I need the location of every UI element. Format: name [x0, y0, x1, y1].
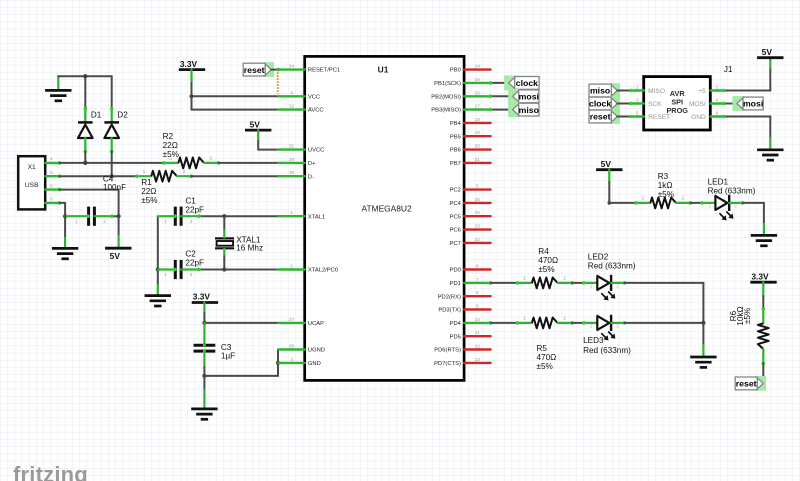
- capacitor C4: [65, 207, 119, 226]
- svg-text:2: 2: [183, 169, 186, 175]
- svg-text:1: 1: [636, 84, 639, 90]
- resistor R5: [516, 316, 574, 329]
- svg-text:19: 19: [475, 130, 481, 136]
- wire clock flag to J1: [617, 102, 632, 106]
- svg-text:5V: 5V: [250, 119, 261, 129]
- U1 right pin 23 PC6: [450, 224, 491, 234]
- junction C4 right node: [117, 214, 121, 218]
- junction UCAP node: [202, 321, 206, 325]
- svg-text:R4: R4: [538, 247, 549, 256]
- U1 right pin 6 PD0: [450, 264, 491, 274]
- wire J1 GND to ground: [722, 115, 771, 150]
- LED LED3: [582, 315, 626, 340]
- ground GND6 (under LED1): [751, 235, 777, 245]
- power 5V (J1): [757, 47, 783, 58]
- svg-text:VCC: VCC: [308, 94, 320, 100]
- wire C2 node to U1 XTAL2/PC0: [224, 269, 278, 271]
- U1 left pin 30 D-: [278, 170, 314, 180]
- svg-text:28: 28: [289, 344, 295, 350]
- svg-text:PC7: PC7: [450, 241, 461, 247]
- U1 left pin 1 XTAL1: [278, 210, 325, 220]
- wire reset flag to U1 RESET/PC1: [271, 68, 280, 72]
- svg-text:8: 8: [476, 290, 479, 296]
- ground GND4 (under C3): [191, 409, 217, 419]
- svg-text:C3: C3: [221, 343, 232, 352]
- net label clock (J1): [589, 96, 620, 111]
- svg-text:5: 5: [50, 183, 53, 189]
- wire R2 to U1 D+: [218, 162, 278, 164]
- wire VCC node to AVCC row: [192, 96, 279, 109]
- svg-text:PB5: PB5: [450, 134, 461, 140]
- svg-text:PD3(TX): PD3(TX): [438, 308, 461, 314]
- resistor R2: [162, 156, 220, 169]
- pin 3 of X1: [45, 170, 61, 178]
- ground GND5 (under J1): [757, 150, 783, 160]
- svg-text:PC2: PC2: [450, 188, 461, 194]
- wire miso flag to J1: [617, 89, 632, 93]
- U1 left pin 32 AVCC: [278, 104, 323, 114]
- svg-text:+5: +5: [698, 88, 706, 95]
- wire U1 PD4 to R5: [489, 321, 518, 325]
- svg-text:R2: R2: [163, 132, 174, 141]
- wire U1 PB3 to miso flag: [489, 108, 513, 112]
- U1 right pin 20 PB6: [450, 144, 491, 154]
- svg-text:PB1(SCK): PB1(SCK): [434, 81, 461, 87]
- wire 3.3V to UCAP node: [203, 303, 205, 323]
- svg-text:15: 15: [475, 77, 481, 83]
- ground GND7 (under LEDs): [690, 357, 716, 367]
- LED LED2: [582, 275, 626, 300]
- U1 right pin 7 PD1: [450, 277, 491, 287]
- junction VCC node: [189, 94, 193, 98]
- resistor R1: [135, 169, 193, 182]
- label D1: [91, 111, 102, 120]
- capacitor C1: [158, 207, 225, 226]
- svg-text:1kΩ: 1kΩ: [658, 181, 673, 190]
- U1 left pin 24 RESET/PC1: [278, 64, 340, 74]
- svg-text:PD4: PD4: [450, 321, 462, 327]
- U1 right pin 26 PC4: [450, 197, 491, 207]
- wire X1 pin6 to ground node: [59, 203, 65, 216]
- svg-text:miso: miso: [590, 86, 610, 96]
- svg-text:GND: GND: [691, 114, 706, 121]
- svg-text:R1: R1: [141, 178, 152, 187]
- ground GND1 (top left): [45, 76, 71, 101]
- op-amp U1 ATMEGA8U2 body: [305, 56, 464, 380]
- power 5V (R3): [596, 159, 622, 170]
- svg-text:PB3(MISO): PB3(MISO): [431, 108, 461, 114]
- U1 right pin 25 PC5: [450, 210, 491, 220]
- svg-text:11: 11: [475, 330, 480, 336]
- svg-text:±5%: ±5%: [658, 190, 674, 199]
- wire X1 pin4 to R2: [59, 162, 164, 164]
- svg-text:mosi: mosi: [519, 92, 539, 102]
- svg-text:23: 23: [475, 224, 481, 230]
- svg-text:X1: X1: [28, 164, 36, 171]
- svg-text:1: 1: [523, 276, 526, 282]
- label LED3 value: [583, 336, 631, 355]
- wire X1 pin5 to 5V node: [59, 190, 118, 217]
- wire 3.3V to VCC node: [190, 70, 192, 97]
- wire junction to U1 GND: [277, 362, 279, 364]
- U1 right pin 16 PB2(MOSI): [431, 90, 490, 100]
- svg-text:1: 1: [290, 210, 293, 216]
- ground GND2 (under USB): [52, 248, 78, 258]
- U1 right pin 22 PC7: [450, 237, 491, 247]
- junction XTAL2 node: [222, 267, 226, 271]
- svg-text:6: 6: [716, 110, 719, 116]
- power 5V (UVCC): [245, 119, 271, 130]
- crystal XTAL1: [215, 216, 234, 269]
- svg-text:27: 27: [289, 317, 295, 323]
- net label reset (top): [243, 62, 274, 77]
- wire C4 right to 5V: [118, 216, 120, 248]
- svg-text:20: 20: [475, 144, 481, 150]
- svg-text:3.3V: 3.3V: [180, 59, 198, 69]
- wire VCC node to U1 VCC: [192, 95, 279, 97]
- U1 right pin 15 PB1(SCK): [434, 77, 490, 87]
- wire D1 to node D+: [84, 151, 86, 163]
- junction C3 bottom node: [202, 374, 206, 378]
- svg-text:RESET/PC1: RESET/PC1: [308, 68, 340, 74]
- resistor R3: [634, 196, 692, 209]
- svg-text:LED2: LED2: [588, 253, 609, 262]
- wire C3 node to ground: [203, 376, 205, 409]
- junction LED ground column: [701, 321, 705, 325]
- svg-text:29: 29: [289, 157, 295, 163]
- svg-text:24: 24: [289, 64, 295, 70]
- svg-text:22Ω: 22Ω: [141, 187, 156, 196]
- svg-text:clock: clock: [516, 78, 538, 88]
- capacitor C3: [194, 323, 216, 376]
- svg-text:10: 10: [475, 317, 481, 323]
- svg-text:PD7(CTS): PD7(CTS): [434, 361, 461, 367]
- resistor R6: [758, 307, 769, 365]
- svg-text:5: 5: [476, 184, 479, 190]
- label C3 value: [221, 343, 235, 361]
- junction XTAL1 top node: [222, 214, 226, 218]
- wire LED3 to ground column: [624, 322, 703, 324]
- wire C3 node to U1 UGND/GND: [204, 350, 278, 376]
- svg-text:Red (633nm): Red (633nm): [708, 187, 756, 196]
- wire U1 PB1 to clock flag: [489, 81, 509, 85]
- U1 right pin 5 PC2: [450, 184, 491, 194]
- svg-text:3.3V: 3.3V: [193, 292, 211, 302]
- label R1 value: [141, 178, 157, 205]
- label LED2 value: [588, 253, 636, 271]
- svg-text:LED1: LED1: [708, 178, 729, 187]
- power 3.3V (R6): [750, 271, 776, 282]
- svg-text:2: 2: [563, 276, 566, 282]
- svg-text:XTAL2/PC0: XTAL2/PC0: [308, 268, 338, 274]
- svg-text:3: 3: [290, 357, 293, 363]
- svg-text:PB7: PB7: [450, 161, 461, 167]
- svg-text:±5%: ±5%: [163, 150, 179, 159]
- svg-text:UGND: UGND: [308, 348, 325, 354]
- U1 right pin 18 PB4: [450, 117, 491, 127]
- svg-text:100nF: 100nF: [103, 183, 126, 192]
- U1 right pin 21 PB7: [450, 157, 491, 167]
- label R2 value: [163, 132, 179, 159]
- net label clock (PB1): [504, 76, 539, 91]
- svg-text:UVCC: UVCC: [308, 148, 324, 154]
- junction GND row node: [276, 361, 280, 365]
- svg-text:17: 17: [475, 104, 481, 110]
- U1 right pin 10 PD4: [450, 317, 491, 327]
- svg-text:31: 31: [289, 144, 295, 150]
- wire X1 pin3 to R1: [59, 175, 136, 177]
- svg-text:RESET: RESET: [648, 114, 670, 121]
- wire U1 PD1 to R4: [489, 281, 518, 285]
- svg-text:26: 26: [475, 197, 481, 203]
- wire C1 node to U1 XTAL1: [224, 215, 278, 217]
- svg-text:PD5: PD5: [450, 334, 461, 340]
- svg-text:21: 21: [475, 157, 481, 163]
- svg-text:LED3: LED3: [583, 336, 604, 345]
- wire LED column to ground: [702, 323, 704, 357]
- U1 left pin 27 UCAP: [278, 317, 324, 327]
- diode D1: [78, 107, 93, 153]
- svg-text:16: 16: [475, 90, 481, 96]
- svg-text:2: 2: [103, 219, 106, 224]
- svg-text:1: 1: [164, 272, 167, 277]
- svg-text:XTAL1: XTAL1: [308, 214, 325, 220]
- junction top bus x D1: [83, 74, 87, 78]
- wire R3 to LED1: [690, 202, 702, 204]
- svg-text:reset: reset: [736, 379, 757, 389]
- svg-text:PROG: PROG: [666, 106, 688, 115]
- svg-text:Red (633nm): Red (633nm): [588, 262, 636, 271]
- svg-text:PB0: PB0: [450, 68, 461, 74]
- U1 right pin 8 PD2(RX): [438, 290, 491, 300]
- wire J1 MOSI to mosi flag: [722, 102, 737, 106]
- svg-text:2: 2: [716, 84, 719, 90]
- svg-text:1: 1: [523, 316, 526, 322]
- svg-text:5V: 5V: [110, 251, 121, 261]
- svg-text:4: 4: [50, 157, 53, 163]
- J1 right pin 4 MOSI: [711, 97, 724, 103]
- U1 right pin 11 PD5: [450, 330, 491, 340]
- capacitor C2: [158, 260, 225, 279]
- net label miso (J1): [589, 83, 620, 98]
- wire C1/C2 left column: [157, 216, 159, 269]
- svg-text:C2: C2: [185, 250, 196, 259]
- wire C4 left node to ground: [64, 216, 66, 248]
- svg-text:1: 1: [75, 219, 78, 224]
- svg-text:22: 22: [475, 237, 481, 243]
- svg-text:UCAP: UCAP: [308, 321, 324, 327]
- svg-text:reset: reset: [590, 112, 611, 122]
- svg-text:PC5: PC5: [450, 214, 461, 220]
- svg-text:±5%: ±5%: [538, 265, 554, 274]
- svg-text:1µF: 1µF: [221, 352, 235, 361]
- label C2 value: [185, 250, 204, 268]
- svg-text:5V: 5V: [601, 159, 612, 169]
- net label mosi (J1 right): [732, 96, 763, 111]
- U1 left pin 29 D+: [278, 157, 316, 167]
- svg-text:±5%: ±5%: [743, 308, 752, 324]
- diode D2: [104, 107, 119, 153]
- junction D2 on D- row: [110, 174, 114, 178]
- svg-text:4: 4: [290, 90, 293, 96]
- pin 5 of X1: [45, 183, 61, 191]
- svg-text:ATMEGA8U2: ATMEGA8U2: [362, 203, 412, 213]
- svg-text:miso: miso: [519, 105, 539, 115]
- wire 5V to U1 UVCC: [258, 130, 278, 150]
- wire R1 to U1 D-: [191, 175, 278, 177]
- svg-text:12: 12: [475, 344, 481, 350]
- svg-text:PB4: PB4: [450, 121, 462, 127]
- pin 4 of X1: [45, 157, 61, 165]
- resistor R4: [516, 276, 574, 289]
- label J1: [724, 64, 733, 74]
- wire corner to R3: [609, 202, 636, 204]
- LED LED1: [700, 195, 744, 220]
- wire C2 node to ground: [157, 270, 159, 296]
- wire U1 PB2 to mosi flag: [489, 95, 513, 99]
- J1 left pin 3 SCK: [631, 97, 644, 103]
- svg-text:32: 32: [289, 104, 295, 110]
- svg-text:9: 9: [476, 304, 479, 310]
- svg-text:1: 1: [164, 219, 167, 224]
- svg-text:3: 3: [50, 170, 53, 176]
- label D2: [117, 111, 128, 120]
- svg-text:D1: D1: [91, 111, 102, 120]
- svg-text:R3: R3: [658, 172, 669, 181]
- label C4 value: [103, 174, 126, 192]
- wire R6 to reset flag: [762, 363, 764, 377]
- U1 left pin 4 VCC: [278, 90, 320, 100]
- label R3 value: [658, 172, 674, 199]
- svg-text:2: 2: [682, 196, 685, 202]
- wire D2 to node D-: [111, 151, 113, 176]
- svg-text:1: 1: [143, 169, 146, 175]
- svg-text:PD2(RX): PD2(RX): [438, 294, 461, 300]
- svg-text:25: 25: [475, 210, 481, 216]
- wire reset flag to J1: [617, 115, 632, 119]
- wire R5 to LED3: [572, 322, 584, 324]
- svg-text:16 Mhz: 16 Mhz: [236, 243, 263, 252]
- svg-text:3.3V: 3.3V: [751, 271, 769, 281]
- junction D1 on D+ row: [83, 161, 87, 165]
- U1 left pin 28 UGND: [278, 344, 325, 354]
- U1 right pin 14 PB0: [450, 64, 491, 74]
- wire J1 +5 to 5V: [722, 58, 771, 93]
- svg-text:C1: C1: [185, 196, 196, 205]
- power 3.3V (UCAP): [192, 292, 218, 303]
- svg-text:D-: D-: [308, 174, 314, 180]
- svg-text:3: 3: [636, 97, 639, 103]
- svg-text:D+: D+: [308, 161, 316, 167]
- power 3.3V (VCC): [179, 59, 205, 70]
- svg-text:PD0: PD0: [450, 268, 461, 274]
- svg-text:1: 1: [642, 196, 645, 202]
- svg-text:D2: D2: [117, 111, 128, 120]
- U1 right pin 12 PD6(RTS): [434, 344, 490, 354]
- J1 right pin 6 GND: [711, 110, 724, 116]
- J1 left pin 1 MISO: [631, 84, 644, 90]
- svg-text:PD1: PD1: [450, 281, 461, 287]
- label R4 value: [538, 247, 558, 274]
- label LED1 value: [708, 178, 756, 196]
- svg-text:2: 2: [190, 272, 193, 277]
- svg-text:reset: reset: [244, 65, 265, 75]
- svg-text:J1: J1: [724, 64, 733, 74]
- label C1 value: [185, 196, 204, 214]
- svg-text:470Ω: 470Ω: [537, 353, 557, 362]
- junction C2 left node: [156, 267, 160, 271]
- svg-text:mosi: mosi: [743, 99, 763, 109]
- net label reset (bottom): [735, 376, 766, 391]
- svg-text:AVCC: AVCC: [308, 108, 324, 114]
- wire top bus to D1/D2: [58, 76, 111, 109]
- svg-text:PB2(MOSI): PB2(MOSI): [431, 94, 461, 100]
- U1 left pin 2 XTAL2/PC0: [278, 264, 338, 274]
- svg-text:2: 2: [290, 264, 293, 270]
- svg-text:SCK: SCK: [648, 101, 662, 108]
- svg-text:U1: U1: [378, 64, 389, 74]
- ground GND3 (under C1/C2): [145, 296, 171, 306]
- ratsnest RESET to VCC: [277, 72, 279, 94]
- svg-text:MOSI: MOSI: [689, 101, 706, 108]
- U1 left pin 31 UVCC: [278, 144, 324, 154]
- svg-text:4: 4: [716, 97, 719, 103]
- svg-text:6: 6: [476, 264, 479, 270]
- svg-text:30: 30: [289, 170, 295, 176]
- svg-text:MISO: MISO: [648, 88, 665, 95]
- wire R4 to LED2: [572, 282, 584, 284]
- svg-text:PC6: PC6: [450, 228, 461, 234]
- net label mosi (PB2): [508, 89, 539, 104]
- connector J1 AVR SPI PROG body: [644, 77, 711, 130]
- svg-text:22pF: 22pF: [185, 205, 204, 214]
- wire 5V down to R3 row: [608, 170, 612, 205]
- svg-text:14: 14: [475, 64, 481, 70]
- U1 right pin 17 PB3(MISO): [431, 104, 490, 114]
- svg-text:470Ω: 470Ω: [538, 256, 558, 265]
- net label miso (PB3): [508, 102, 539, 117]
- svg-text:C4: C4: [103, 174, 114, 183]
- wire LED2 to right column: [624, 283, 703, 323]
- net label reset (J1): [589, 109, 620, 124]
- svg-text:6: 6: [50, 197, 53, 203]
- wire LED1 to ground: [743, 203, 764, 236]
- svg-text:13: 13: [475, 357, 481, 363]
- svg-text:5V: 5V: [762, 47, 773, 57]
- svg-text:±5%: ±5%: [141, 196, 157, 205]
- J1 right pin 2 +5: [711, 84, 724, 90]
- U1 left pin 3 GND: [278, 357, 321, 367]
- J1 left pin 5 RESET: [631, 110, 644, 116]
- svg-text:PD6(RTS): PD6(RTS): [434, 348, 461, 354]
- svg-text:18: 18: [475, 117, 481, 123]
- svg-text:2: 2: [563, 316, 566, 322]
- U1 right pin 9 PD3(TX): [438, 304, 490, 314]
- svg-text:R5: R5: [537, 344, 548, 353]
- svg-text:GND: GND: [308, 361, 321, 367]
- svg-text:fritzing: fritzing: [13, 462, 88, 481]
- svg-text:2: 2: [190, 219, 193, 224]
- svg-text:Red (633nm): Red (633nm): [583, 346, 631, 355]
- label R6 value: [729, 306, 752, 325]
- svg-text:clock: clock: [589, 99, 611, 109]
- wire UCAP node to U1 UCAP: [204, 322, 278, 324]
- pin 6 of X1: [45, 197, 61, 205]
- svg-text:2: 2: [210, 156, 213, 162]
- svg-text:7: 7: [476, 277, 479, 283]
- svg-text:22Ω: 22Ω: [163, 141, 178, 150]
- power 5V (USB): [105, 248, 131, 261]
